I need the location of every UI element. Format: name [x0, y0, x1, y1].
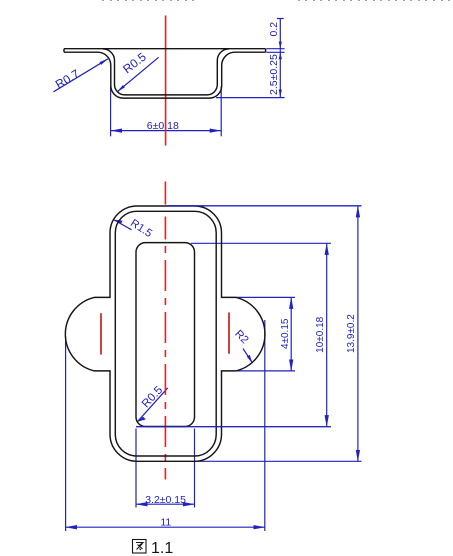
svg-text:R0.5: R0.5: [140, 384, 165, 410]
dimension line 11: [66, 526, 265, 528]
section outer profile: [64, 52, 266, 98]
extension line right ear extreme: [264, 320, 266, 531]
dimension line 3.2±0.15: [136, 503, 195, 505]
ext line channel bottom: [216, 97, 285, 99]
extension line ear bottom: [236, 370, 295, 372]
extension line body top: [166, 205, 362, 207]
dimension 13.9±0.2: [166, 206, 362, 461]
extension line left channel wall: [110, 86, 112, 136]
ear centermark left: [100, 313, 102, 354]
leader line R1.5: [114, 220, 132, 230]
leader arrow R0.7: [100, 59, 109, 65]
radius label R2: [243, 349, 253, 364]
svg-text:R1.5: R1.5: [128, 217, 154, 240]
dimension line 10±0.18: [326, 243, 328, 426]
svg-text:13.9±0.2: 13.9±0.2: [346, 314, 357, 353]
plan opening rounded rect: [136, 243, 195, 427]
leader arrow R2: [247, 355, 253, 363]
svg-text:R0.7: R0.7: [53, 66, 82, 91]
svg-text:R0.5: R0.5: [120, 50, 149, 77]
extension line left ear extreme: [65, 336, 67, 531]
svg-text:4±0.15: 4±0.15: [280, 318, 291, 349]
svg-text:6±0.18: 6±0.18: [147, 120, 179, 132]
dimension 11: [66, 320, 265, 531]
leader line R0.5 plan: [137, 388, 168, 422]
extension line right channel wall: [220, 86, 222, 136]
svg-text:0.2: 0.2: [268, 22, 280, 37]
caption 图 glyph (drawn): [133, 540, 147, 554]
svg-text:3.2±0.15: 3.2±0.15: [145, 494, 186, 506]
svg-text:10±0.18: 10±0.18: [315, 316, 326, 353]
svg-text:1.1: 1.1: [151, 540, 173, 556]
dimension line 4±0.15: [290, 297, 292, 371]
leader arrow R1.5: [114, 220, 123, 224]
section inner surface branch: [103, 49, 229, 95]
svg-text:2.5±0.25: 2.5±0.25: [268, 54, 280, 95]
extension line opening left: [135, 429, 137, 508]
radius label R0.5 (plan): [137, 388, 168, 422]
arrows 0.2 / 2.5±0.25: [279, 42, 282, 98]
extension line opening bottom: [136, 426, 331, 428]
leader line R2: [243, 349, 253, 364]
blue overlays that sit above black edges: [136, 206, 362, 427]
10 bottom extension overlay: [136, 426, 331, 428]
radius label R1.5: [114, 220, 132, 230]
leader line R0.7: [54, 59, 109, 92]
section top surface line: [64, 48, 266, 50]
cropped text remnants at top edge: [102, 0, 450, 1]
leader arrow R0.5 plan: [137, 417, 146, 422]
left flange end cap: [63, 49, 65, 53]
top tick: [277, 18, 284, 20]
leader arrow R0.5 section: [117, 85, 125, 92]
13.9 top extension overlay: [166, 205, 362, 207]
plan outer outline with ears: [65, 206, 265, 461]
extension line ear top: [236, 296, 295, 298]
radius label R0.5 (section): [117, 57, 159, 92]
dimension 6±0.18 extension lines: [111, 86, 222, 136]
ear centermark right: [228, 312, 230, 353]
dimension line 6±0.18: [111, 130, 222, 132]
svg-text:R2: R2: [232, 328, 250, 346]
leader line R0.5 section: [117, 57, 159, 92]
right flange end cap: [265, 49, 267, 53]
ext line flange bottom: [266, 51, 284, 53]
dimension 3.2±0.15: [136, 429, 195, 508]
dimension line 13.9±0.2: [357, 206, 359, 461]
ext line flange top: [266, 48, 284, 50]
centerline (plan view): [164, 182, 166, 480]
centerline (section view): [165, 16, 167, 146]
dimension 0.2 and 2.5±0.25: [216, 19, 285, 98]
vertical dim line: [279, 19, 281, 98]
svg-text:11: 11: [160, 517, 171, 529]
dimension 4±0.15: [236, 297, 295, 371]
extension line opening top: [191, 242, 331, 244]
plan inner rim contour: [115, 211, 216, 456]
radius label R0.7: [54, 59, 109, 92]
dimension 10±0.18: [136, 243, 331, 426]
extension line opening right: [194, 429, 196, 508]
extension line body bottom: [195, 460, 362, 462]
